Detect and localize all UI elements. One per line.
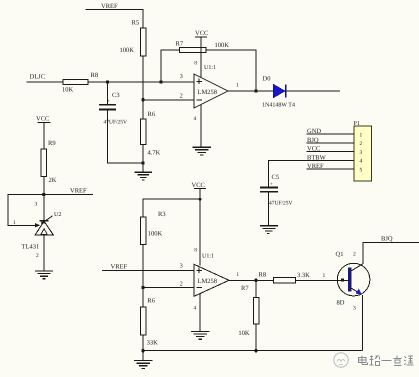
svg-text:VREF: VREF: [307, 163, 324, 170]
svg-text:R3: R3: [158, 211, 166, 218]
svg-text:R6: R6: [148, 111, 156, 118]
node pin2 junction: [141, 98, 144, 101]
wire P1 pin1 GND: [307, 133, 355, 135]
svg-text:10K: 10K: [238, 330, 250, 337]
resistor R5: [120, 20, 146, 57]
resistor R8: [62, 72, 98, 94]
svg-text:2: 2: [360, 141, 363, 147]
svg-text:VCC: VCC: [36, 116, 49, 123]
svg-text:2: 2: [180, 94, 183, 100]
node rail left junction: [141, 349, 144, 352]
svg-text:R6: R6: [147, 298, 155, 305]
svg-text:VREF: VREF: [70, 188, 87, 195]
pin 4 wire lower: [199, 294, 201, 331]
ground under C5: [260, 226, 278, 234]
wire pin2 lower: [143, 287, 194, 289]
ground bottom left: [134, 361, 152, 369]
svg-text:33K: 33K: [147, 340, 159, 347]
node C3/R6 ground junction: [141, 161, 144, 164]
op-amp U1:1 lower: [194, 248, 229, 297]
node VCC branch junction: [199, 198, 202, 201]
svg-text:TL431: TL431: [22, 244, 40, 251]
power VCC left: [36, 116, 50, 149]
resistor R9: [41, 140, 57, 184]
svg-text:2: 2: [36, 253, 39, 259]
wire R5 bottom to pin2 node: [142, 56, 144, 119]
svg-text:U2: U2: [54, 212, 61, 218]
svg-text:100K: 100K: [215, 42, 230, 49]
svg-text:+: +: [270, 183, 273, 188]
svg-text:R9: R9: [48, 140, 56, 147]
svg-text:Q1: Q1: [336, 251, 344, 258]
pin 4 wire upper: [200, 105, 202, 148]
svg-text:1N4148W T4: 1N4148W T4: [262, 103, 295, 109]
svg-text:DLJC: DLJC: [30, 74, 46, 81]
wire VREF stub: [44, 194, 93, 196]
resistor R7 lower (10K): [238, 280, 258, 350]
wire R8 to pin3: [88, 81, 194, 83]
svg-text:3: 3: [180, 74, 183, 80]
svg-text:4: 4: [194, 116, 197, 122]
watermark logo: [334, 353, 348, 367]
wire pin2: [143, 99, 194, 101]
wire bottom rail: [143, 350, 363, 352]
resistor R6: [140, 111, 160, 157]
svg-text:3.3K: 3.3K: [297, 272, 310, 279]
node base pin square: [341, 278, 344, 281]
svg-text:47UF/25V: 47UF/25V: [104, 120, 128, 126]
wire P1 pin3 VCC: [307, 151, 355, 153]
power VCC lower: [192, 182, 207, 266]
svg-text:8: 8: [194, 61, 197, 67]
svg-text:1: 1: [236, 272, 239, 278]
svg-text:VREF: VREF: [111, 264, 128, 271]
svg-text:R8: R8: [259, 272, 267, 279]
ground under TL431: [35, 271, 53, 279]
node R7 feedback junction: [159, 80, 162, 83]
svg-text:D0: D0: [263, 76, 271, 83]
svg-text:R7: R7: [241, 285, 249, 292]
wire output lower: [229, 279, 274, 281]
ground under op-amp U1:1: [193, 147, 212, 155]
svg-text:47UF/25V: 47UF/25V: [269, 201, 293, 207]
node VREF top rail: [86, 3, 143, 28]
svg-text:3: 3: [353, 306, 356, 312]
ground under R6: [134, 172, 152, 180]
capacitor C3: [99, 82, 127, 126]
svg-text:100K: 100K: [148, 231, 163, 238]
wire DLJC to R8: [27, 81, 64, 83]
connector P1: [354, 121, 372, 181]
svg-text:3: 3: [35, 202, 38, 208]
node C3 junction: [106, 80, 109, 83]
wire VREF to pin3 lower: [102, 269, 194, 271]
node VREF left junction: [42, 193, 45, 196]
svg-text:+: +: [107, 100, 110, 105]
svg-text:GND: GND: [307, 128, 321, 135]
svg-text:2K: 2K: [49, 177, 57, 184]
resistor R3: [140, 211, 165, 245]
node R7 rail junction: [254, 349, 257, 352]
svg-text:C5: C5: [272, 174, 280, 181]
svg-text:1: 1: [323, 273, 326, 279]
node output junction: [254, 89, 257, 92]
svg-text:R5: R5: [132, 20, 140, 27]
wire R8 to Q1 base: [296, 279, 349, 281]
power VCC upper: [195, 30, 208, 77]
wire R7 feedback branch: [161, 50, 179, 82]
wire R3 bottom to pin2 node: [142, 245, 144, 308]
wire TL431 ref loop: [8, 195, 44, 226]
svg-text:10K: 10K: [62, 87, 74, 94]
transistor U2 TL431: [22, 195, 62, 260]
svg-text:4: 4: [194, 306, 197, 312]
resistor R7: [176, 41, 230, 53]
svg-text:U1:1: U1:1: [202, 254, 214, 260]
svg-text:BJQ: BJQ: [307, 137, 319, 144]
wire P1 pin5 VREF: [307, 168, 355, 170]
diode D0 1N4148: [262, 76, 295, 109]
watermark text 电路一点通: [359, 356, 414, 366]
svg-text:2: 2: [353, 252, 356, 258]
wire VCC branch to R3: [143, 199, 200, 217]
wire TL431 anode: [43, 235, 45, 271]
svg-text:4.7K: 4.7K: [148, 150, 161, 157]
svg-text:C3: C3: [112, 92, 120, 99]
svg-text:BJQ: BJQ: [381, 236, 393, 243]
svg-text:2: 2: [180, 282, 183, 288]
svg-text:1: 1: [13, 220, 16, 226]
svg-text:3: 3: [360, 150, 363, 156]
svg-text:1: 1: [360, 133, 363, 139]
svg-text:LM258: LM258: [198, 89, 218, 96]
svg-text:5: 5: [360, 167, 363, 173]
wire output net: [228, 90, 340, 92]
svg-text:VREF: VREF: [101, 3, 118, 10]
wire C3 bottom to ground node: [108, 110, 144, 163]
resistor R6 lower (33K): [140, 298, 158, 347]
wire R6 bottom: [142, 144, 144, 172]
svg-text:100K: 100K: [120, 47, 135, 54]
svg-text:U1:1: U1:1: [204, 65, 216, 71]
svg-text:8D: 8D: [337, 300, 345, 307]
transistor Q1: [336, 243, 419, 351]
resistor R8 lower (3.3K): [259, 272, 311, 283]
svg-text:8: 8: [194, 248, 197, 254]
svg-text:R7: R7: [176, 41, 184, 48]
svg-text:VCC: VCC: [307, 146, 320, 153]
ground under op-amp lower: [191, 331, 210, 339]
svg-text:3: 3: [180, 264, 183, 270]
wire R9 bottom: [43, 176, 45, 194]
wire R7 right to output: [206, 50, 256, 91]
svg-text:BTBW: BTBW: [307, 154, 327, 161]
wire P1 pin2 BJQ: [307, 142, 355, 144]
svg-text:1: 1: [236, 83, 239, 89]
svg-text:4: 4: [360, 159, 363, 165]
svg-text:LM258: LM258: [198, 278, 218, 285]
op-amp U1:1 upper: [194, 61, 228, 109]
capacitor C5 with BTBW corner: [260, 160, 354, 225]
wire R6 bottom to rail: [142, 335, 144, 361]
svg-text:VCC: VCC: [192, 182, 205, 189]
node lower pin2 junction: [141, 286, 144, 289]
svg-text:R8: R8: [91, 72, 99, 79]
svg-text:VCC: VCC: [195, 30, 208, 37]
node lower output junction: [254, 279, 257, 282]
